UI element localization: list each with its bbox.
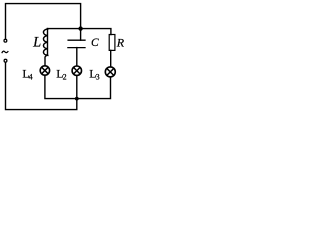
svg-text:C: C: [91, 37, 99, 49]
svg-text:R: R: [116, 35, 125, 49]
svg-text:3: 3: [96, 73, 100, 82]
svg-text:L: L: [32, 34, 41, 50]
svg-text:4: 4: [29, 73, 33, 82]
svg-text:2: 2: [63, 73, 67, 82]
